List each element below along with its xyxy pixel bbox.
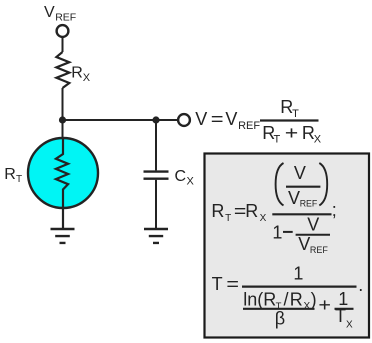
big right paren: [319, 163, 327, 205]
svg-text:V: V: [195, 109, 207, 129]
terminal V output: [178, 114, 190, 126]
svg-text:;: ;: [332, 200, 337, 220]
wire capacitor to ground: [155, 180, 157, 228]
svg-text:ln(R: ln(R: [243, 289, 276, 309]
svg-text:X: X: [260, 213, 267, 224]
minus: [283, 231, 293, 233]
thermistor RT: [28, 138, 98, 208]
svg-text:R: R: [4, 166, 16, 183]
svg-text:X: X: [346, 319, 353, 330]
inner fraction bar: [286, 186, 320, 188]
svg-text:1: 1: [293, 263, 303, 283]
svg-text:V: V: [307, 215, 319, 235]
wire node A to thermistor: [62, 120, 64, 138]
svg-text:+: +: [285, 123, 299, 143]
svg-text:V: V: [44, 4, 55, 21]
svg-text:R: R: [71, 64, 83, 81]
svg-text:/: /: [284, 289, 289, 309]
big left paren: [276, 163, 284, 205]
main fraction bar 2: [242, 285, 357, 287]
svg-text:X: X: [314, 134, 322, 146]
capacitor CX: [144, 172, 169, 179]
svg-text:V: V: [298, 234, 310, 254]
svg-text:T: T: [274, 134, 281, 146]
svg-text:R: R: [245, 201, 258, 221]
svg-text:REF: REF: [300, 199, 318, 209]
svg-text:1: 1: [272, 223, 282, 243]
svg-text:REF: REF: [55, 12, 76, 24]
svg-text:R: R: [211, 201, 224, 221]
svg-text:β: β: [275, 309, 285, 329]
svg-text:X: X: [304, 301, 311, 312]
formula box: [205, 154, 370, 338]
svg-text:V: V: [288, 188, 300, 208]
svg-text:): ): [311, 289, 317, 309]
svg-text:REF: REF: [238, 120, 260, 132]
svg-text:X: X: [83, 72, 91, 84]
main fraction bar 1: [272, 213, 331, 215]
resistor RX: [56, 52, 69, 88]
terminal VREF: [57, 25, 69, 37]
wire resistor to node A: [62, 88, 64, 120]
wire node A to output terminal: [63, 119, 178, 121]
svg-text:T: T: [225, 213, 231, 224]
junction node A: [59, 116, 66, 123]
svg-text:+: +: [318, 295, 331, 315]
svg-text:T: T: [292, 108, 299, 120]
svg-text:=: =: [226, 274, 239, 294]
svg-text:C: C: [175, 168, 187, 185]
bar under ln: [243, 308, 315, 310]
svg-text:T: T: [212, 274, 223, 294]
svg-text:T: T: [16, 174, 22, 185]
svg-text:V: V: [294, 163, 306, 183]
wire node B to capacitor: [155, 120, 157, 170]
svg-text:R: R: [290, 289, 303, 309]
ground (capacitor): [144, 229, 168, 243]
wire terminal to resistor: [62, 37, 64, 52]
junction node B: [152, 116, 159, 123]
svg-text:=: =: [211, 109, 224, 129]
ground (thermistor): [51, 229, 75, 243]
svg-text:X: X: [187, 176, 195, 188]
svg-text:REF: REF: [310, 245, 329, 255]
svg-text:.: .: [358, 275, 363, 295]
svg-text:V: V: [225, 109, 237, 129]
svg-text:T: T: [335, 306, 346, 326]
